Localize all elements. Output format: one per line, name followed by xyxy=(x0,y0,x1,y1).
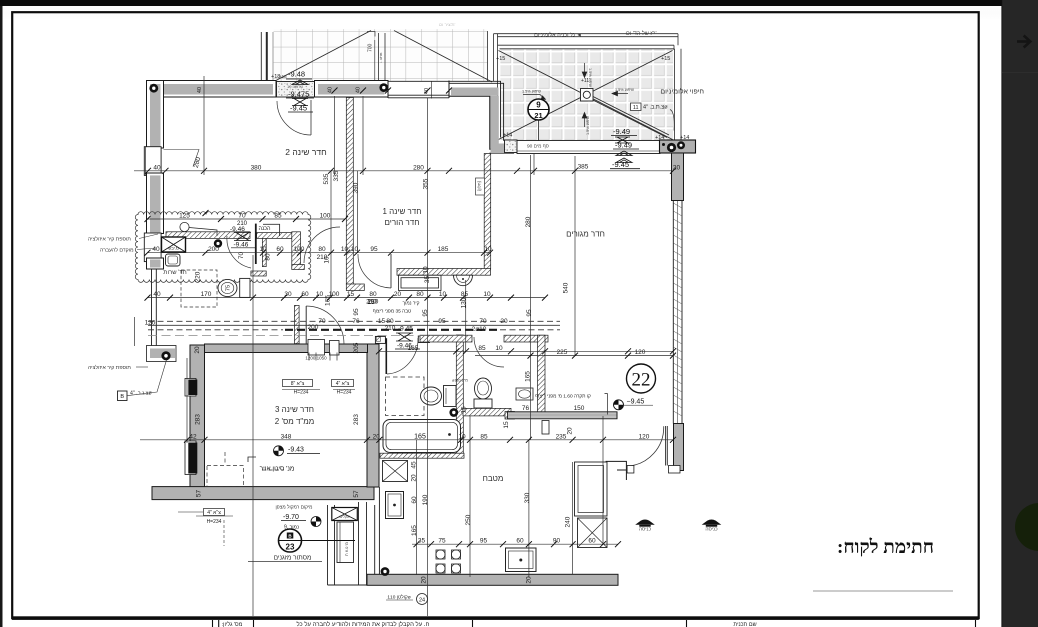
svg-text:40: 40 xyxy=(152,246,160,253)
svg-text:20: 20 xyxy=(394,291,402,298)
west window (thin double line) xyxy=(152,269,157,346)
svg-text:-9.49: -9.49 xyxy=(615,141,632,150)
svg-text:שיפוע 1.5%: שיפוע 1.5% xyxy=(588,68,592,87)
wall segment B xyxy=(315,81,389,98)
svg-text:200: 200 xyxy=(308,324,319,331)
svg-text:10: 10 xyxy=(259,246,267,253)
kitchen low wall gray band xyxy=(508,412,618,419)
small sink below washer xyxy=(166,254,181,266)
svg-text:165: 165 xyxy=(524,371,531,382)
svg-text:70: 70 xyxy=(318,318,326,325)
svg-text:20: 20 xyxy=(410,474,417,482)
bathtub south hatch xyxy=(380,453,464,458)
svg-text:B: B xyxy=(120,394,124,400)
svg-text:שם תכנית: שם תכנית xyxy=(733,622,756,627)
WC south walls xyxy=(463,408,511,416)
row y544 kitchen xyxy=(412,543,618,545)
tzad box bottom left xyxy=(178,509,233,547)
svg-text:כניסה: כניסה xyxy=(639,527,652,533)
svg-text:80: 80 xyxy=(265,253,272,261)
svg-text:20: 20 xyxy=(526,576,533,584)
parapet band under balcony xyxy=(517,141,660,154)
svg-text:23: 23 xyxy=(286,543,295,552)
svg-text:-9.70: -9.70 xyxy=(283,514,299,521)
bathtub xyxy=(383,420,461,453)
half-round basin xyxy=(454,275,473,286)
bath door jambs xyxy=(375,336,385,343)
bedroom2/bedroom1 partition xyxy=(346,98,353,285)
svg-text:10: 10 xyxy=(458,433,466,440)
svg-text:H=234: H=234 xyxy=(207,519,222,525)
row y250 corridor north xyxy=(147,252,490,254)
svg-text:ממ"ד מס' 2: ממ"ד מס' 2 xyxy=(275,417,314,426)
svg-text:20: 20 xyxy=(194,346,201,354)
shelter top wall xyxy=(205,344,368,353)
top gray band xyxy=(0,0,1038,6)
svg-text:22: 22 xyxy=(632,370,651,391)
svg-text:2ø10: 2ø10 xyxy=(472,326,487,333)
svg-text:אקלים: אקלים xyxy=(339,515,350,519)
svg-text:330: 330 xyxy=(524,492,531,503)
east wall: entrance pier xyxy=(674,424,684,471)
svg-text:ח. על הקבלן לבדוק את המידות ול: ח. על הקבלן לבדוק את המידות ולהודיע לחבר… xyxy=(297,620,430,627)
svg-text:40: 40 xyxy=(153,164,161,171)
svg-text:60: 60 xyxy=(301,291,309,298)
svg-text:קולטן 110ø: קולטן 110ø xyxy=(387,594,410,601)
left side labels xyxy=(88,236,134,372)
svg-text:-9.46: -9.46 xyxy=(397,343,412,350)
svg-text:90: 90 xyxy=(553,538,561,545)
svg-text:-9.43: -9.43 xyxy=(288,447,304,454)
svg-text:76: 76 xyxy=(352,318,360,325)
svg-text:283: 283 xyxy=(353,414,360,425)
svg-text:ø110 מ"ק: ø110 מ"ק xyxy=(452,379,468,383)
top fade overlay xyxy=(3,6,1006,32)
balcony door arc bedroom2 xyxy=(310,100,312,135)
svg-text:10: 10 xyxy=(351,246,359,253)
svg-text:H=234: H=234 xyxy=(337,390,352,396)
NW corner wall bedroom2 xyxy=(147,81,277,149)
svg-text:35: 35 xyxy=(418,538,426,545)
svg-text:חדר שינה 3: חדר שינה 3 xyxy=(275,405,314,414)
svg-text:125: 125 xyxy=(179,213,190,220)
svg-text:76: 76 xyxy=(522,405,530,412)
right service door arc xyxy=(304,227,340,263)
svg-text:-9.46: -9.46 xyxy=(230,226,245,233)
+15 corner labels xyxy=(271,56,689,141)
svg-text:57: 57 xyxy=(353,490,360,498)
-9.43 benchmark xyxy=(274,446,321,456)
tick marks (45deg slashes) xyxy=(145,88,677,548)
svg-text:20: 20 xyxy=(673,165,681,172)
svg-text:21: 21 xyxy=(534,111,542,120)
X-box below counter xyxy=(578,518,608,548)
bedroom1 south wall xyxy=(397,269,491,276)
rotated dimension texts xyxy=(164,87,574,584)
circle 9/21 xyxy=(528,99,549,148)
svg-text:כניסה: כניסה xyxy=(705,527,718,533)
B detail box xyxy=(118,391,128,401)
WC toilet xyxy=(475,378,492,399)
svg-text:80: 80 xyxy=(318,246,326,253)
WC east wall xyxy=(538,335,546,414)
svg-text:380: 380 xyxy=(251,164,262,171)
svg-text:40: 40 xyxy=(197,87,203,93)
circle 22 xyxy=(627,364,656,393)
svg-text:(חלון): (חלון) xyxy=(477,180,482,191)
north window (opening) xyxy=(388,81,449,99)
bottom table heavy line xyxy=(12,616,979,620)
green circle xyxy=(1015,503,1038,551)
shelter west wall xyxy=(190,345,205,497)
row y356 living xyxy=(475,355,673,357)
svg-text:70: 70 xyxy=(479,318,487,325)
svg-text:שיפוע 1.5%: שיפוע 1.5% xyxy=(586,116,590,135)
svg-text:+15: +15 xyxy=(661,56,670,62)
svg-text:85: 85 xyxy=(480,433,488,440)
svg-text:240: 240 xyxy=(565,516,572,527)
left balcony tile field xyxy=(274,29,488,82)
svg-text:225: 225 xyxy=(557,349,568,356)
svg-text:100: 100 xyxy=(320,213,331,220)
svg-text:מ.יבש: מ.יבש xyxy=(168,246,179,251)
slope arrows xyxy=(523,63,628,127)
drain square at X centre xyxy=(581,89,594,102)
svg-text:15: 15 xyxy=(460,406,467,414)
left balcony boundary joint lines xyxy=(261,32,273,81)
svg-text:מנ' סינון אויר: מנ' סינון אויר xyxy=(260,466,295,473)
svg-text:שיפוע 1.5%: שיפוע 1.5% xyxy=(522,90,541,94)
svg-text:355: 355 xyxy=(423,178,430,189)
WC north wall with door gap xyxy=(420,335,472,342)
svg-text:חד' שרות: חד' שרות xyxy=(163,270,186,276)
row y440 long xyxy=(140,439,673,441)
plumbing shaft block xyxy=(660,140,696,153)
svg-text:205: 205 xyxy=(353,342,360,353)
svg-text:235: 235 xyxy=(556,433,567,440)
svg-text:מיקום רמקול מצפן: מיקום רמקול מצפן xyxy=(276,504,313,511)
svg-text:מ' וכניה אלומיניום ◄: מ' וכניה אלומיניום ◄ xyxy=(534,32,582,39)
svg-text:חתימת לקוח:: חתימת לקוח: xyxy=(837,537,934,558)
svg-text:צ.נ.ב. "4ø: צ.נ.ב. "4ø xyxy=(130,391,152,397)
svg-text:שיפוע 1.5%: שיפוע 1.5% xyxy=(615,88,634,92)
shelter windows (black) xyxy=(185,379,196,397)
kitchen floor drain xyxy=(381,567,390,576)
svg-text:−9.45: −9.45 xyxy=(627,399,645,406)
svg-text:10: 10 xyxy=(495,345,503,352)
svg-text:-9.475: -9.475 xyxy=(288,90,309,99)
right balcony tile field xyxy=(499,50,673,141)
svg-text:348: 348 xyxy=(281,433,292,440)
svg-text:85: 85 xyxy=(274,213,282,220)
svg-text:40: 40 xyxy=(356,87,362,93)
bathroom toilet xyxy=(421,387,442,405)
svg-text:מס' גליון:: מס' גליון: xyxy=(222,621,243,627)
svg-text:10: 10 xyxy=(423,266,430,274)
svg-text:צ"א "4: צ"א "4 xyxy=(207,510,221,516)
svg-text:הכנה: הכנה xyxy=(259,226,272,232)
window marker dots xyxy=(149,84,158,93)
svg-text:45: 45 xyxy=(410,461,417,469)
left balcony X diagonals xyxy=(274,31,492,83)
svg-text:165: 165 xyxy=(411,525,418,536)
svg-text:40: 40 xyxy=(328,87,334,93)
service area hatched wall xyxy=(166,232,250,239)
west kitchen sink xyxy=(386,492,404,519)
svg-text:חדר שינה 2: חדר שינה 2 xyxy=(285,147,326,157)
hob xyxy=(436,550,461,573)
svg-text:95: 95 xyxy=(370,246,378,253)
svg-text:קו תקרה 1.60 מ' מפני ריצוף: קו תקרה 1.60 מ' מפני ריצוף xyxy=(535,394,591,400)
dashed rect below service xyxy=(181,270,217,307)
svg-text:-9.49: -9.49 xyxy=(613,127,630,136)
svg-text:15: 15 xyxy=(378,318,386,325)
svg-text:120: 120 xyxy=(145,320,156,327)
WC door xyxy=(474,337,504,367)
shower dashed xyxy=(386,377,425,416)
bathroom door leaf+arc xyxy=(385,338,387,374)
svg-text:קיר נמוך: קיר נמוך xyxy=(403,302,420,307)
-9.45 near circle22 xyxy=(614,400,624,410)
svg-text:10: 10 xyxy=(341,246,349,253)
svg-text:מסתור מזגנים: מסתור מזגנים xyxy=(274,555,312,562)
bedroom1 east wall xyxy=(484,154,491,270)
svg-text:+15: +15 xyxy=(496,56,505,62)
svg-text:95: 95 xyxy=(422,309,429,317)
svg-text:540: 540 xyxy=(563,282,570,293)
detail box 11 xyxy=(631,103,642,111)
svg-text:מ' 6.0 ח: מ' 6.0 ח xyxy=(344,542,349,556)
svg-text:תוספת קיר איזולציה: תוספת קיר איזולציה xyxy=(88,364,131,371)
svg-text:100: 100 xyxy=(294,246,305,253)
mid-balcony joint with channel xyxy=(375,33,385,81)
svg-text:95: 95 xyxy=(353,308,360,316)
svg-text:-9.48: -9.48 xyxy=(288,70,305,79)
svg-text:סף מים 90: סף מים 90 xyxy=(527,144,549,150)
svg-text:חדר מגורים: חדר מגורים xyxy=(566,230,605,239)
svg-text:170: 170 xyxy=(201,291,212,298)
kitchen west wall lines xyxy=(375,487,380,574)
svg-text:צ"א "4: צ"א "4 xyxy=(336,381,350,387)
svg-text:42: 42 xyxy=(189,433,197,440)
svg-text:חדר הורים: חדר הורים xyxy=(385,218,420,227)
svg-text:15: 15 xyxy=(347,291,355,298)
shelter south wall xyxy=(152,487,374,500)
svg-text:95: 95 xyxy=(480,538,488,545)
svg-text:700: 700 xyxy=(368,43,374,52)
svg-text:צ.ת.ב. "4ø: צ.ת.ב. "4ø xyxy=(643,105,668,111)
svg-text:60: 60 xyxy=(516,538,524,545)
entrance awnings xyxy=(635,519,721,532)
circle 23 xyxy=(279,529,302,552)
arrow icon xyxy=(1017,36,1030,48)
svg-text:210: 210 xyxy=(385,325,396,332)
svg-text:תוספת קיר איזולציה: תוספת קיר איזולציה xyxy=(88,236,131,243)
svg-text:60: 60 xyxy=(588,538,596,545)
svg-text:20: 20 xyxy=(421,576,428,584)
svg-text:280: 280 xyxy=(525,216,532,227)
svg-text:80: 80 xyxy=(369,291,377,298)
svg-text:מטבח: מטבח xyxy=(483,474,504,483)
svg-text:120: 120 xyxy=(635,349,646,356)
service door xyxy=(255,224,257,264)
kitchen duct X-box xyxy=(383,461,408,482)
svg-text:210: 210 xyxy=(366,298,377,305)
svg-text:20: 20 xyxy=(373,433,381,440)
svg-text:200: 200 xyxy=(208,246,219,253)
svg-text:H=234: H=234 xyxy=(294,390,309,396)
svg-text:+14: +14 xyxy=(503,133,512,139)
terrazzo threshold block xyxy=(277,82,315,98)
counter rect xyxy=(575,462,608,516)
entrance porch step lines xyxy=(606,461,626,480)
guest toilet xyxy=(218,279,237,296)
svg-text:↓ מרזב: ↓ מרזב xyxy=(379,52,383,63)
tzad boxes top of shelter xyxy=(282,380,355,396)
svg-text:מוקדם להעברה: מוקדם להעברה xyxy=(100,247,134,254)
svg-text:+18: +18 xyxy=(279,74,287,79)
row y351 bath xyxy=(379,350,673,352)
svg-text:75: 75 xyxy=(226,285,232,291)
bathroom west=shelter east already; bathroom east wall xyxy=(456,335,463,456)
svg-text:185: 185 xyxy=(438,246,449,253)
svg-text:9: 9 xyxy=(536,101,541,110)
svg-text:40: 40 xyxy=(153,291,161,298)
main kitchen sink xyxy=(506,548,537,572)
svg-text:165: 165 xyxy=(324,295,331,306)
right balcony X diagonals xyxy=(499,51,673,140)
WC small sink xyxy=(516,388,533,400)
svg-text:10: 10 xyxy=(316,291,324,298)
svg-text:190: 190 xyxy=(422,494,429,505)
east wall: window strip xyxy=(673,201,682,424)
svg-text:283: 283 xyxy=(194,414,201,425)
level marks right balcony xyxy=(612,127,632,169)
svg-text:85: 85 xyxy=(478,345,486,352)
svg-text:120: 120 xyxy=(639,433,650,440)
svg-text:15: 15 xyxy=(503,421,510,429)
NE corner wall xyxy=(449,81,516,153)
verticals xyxy=(203,76,205,175)
svg-text:80: 80 xyxy=(386,318,394,325)
svg-text:130: 130 xyxy=(461,297,468,308)
svg-text:75: 75 xyxy=(438,538,446,545)
svg-text:צ"א "8: צ"א "8 xyxy=(291,381,305,387)
air filter dashed xyxy=(207,466,244,487)
svg-text:220: 220 xyxy=(195,271,202,282)
svg-text:10: 10 xyxy=(324,256,331,264)
svg-text:335: 335 xyxy=(333,170,340,181)
svg-text:57: 57 xyxy=(196,490,203,498)
shelter door arc xyxy=(305,306,307,344)
svg-text:20: 20 xyxy=(500,318,508,325)
speckled column at balcony SE xyxy=(505,140,518,153)
svg-text:11: 11 xyxy=(633,105,639,111)
east wall: gray top xyxy=(672,153,684,201)
circle fixture + line xyxy=(180,222,189,231)
svg-text:95: 95 xyxy=(526,309,533,317)
svg-text:70: 70 xyxy=(238,252,245,260)
svg-text:-9.46: -9.46 xyxy=(234,241,249,248)
svg-text:385: 385 xyxy=(578,163,589,170)
svg-text:חיפוי אלומיניום: חיפוי אלומיניום xyxy=(660,88,704,96)
top neighbour texts xyxy=(439,22,657,39)
right sidebar xyxy=(1002,0,1038,627)
svg-text:חדר שינה 1: חדר שינה 1 xyxy=(383,207,422,216)
svg-text:10: 10 xyxy=(484,246,492,253)
entrance door leaf+arc xyxy=(665,426,667,466)
shelter east wall xyxy=(367,344,379,487)
svg-text:95: 95 xyxy=(438,318,446,325)
svg-text:24: 24 xyxy=(419,598,425,604)
svg-text:70: 70 xyxy=(238,213,246,220)
bathroom drain xyxy=(449,408,458,417)
svg-text:-9.45: -9.45 xyxy=(398,326,413,333)
svg-text:60: 60 xyxy=(411,496,418,504)
svg-text:10: 10 xyxy=(439,291,447,298)
svg-text:85: 85 xyxy=(461,291,469,298)
level marks left balcony door xyxy=(288,70,309,113)
row y297 xyxy=(147,297,545,299)
row y219 cloud xyxy=(147,218,345,220)
SW corner block with insulation xyxy=(147,346,177,362)
svg-text:250: 250 xyxy=(465,514,472,525)
bottom table row xyxy=(213,620,976,627)
right balcony neighbour top band lines xyxy=(488,31,682,140)
svg-text:20: 20 xyxy=(567,427,574,435)
svg-text:60: 60 xyxy=(276,246,284,253)
shelter door opening jambs xyxy=(308,340,325,356)
svg-text:150: 150 xyxy=(574,405,585,412)
svg-text:40: 40 xyxy=(424,88,430,94)
low shelf under bedroom1 xyxy=(399,275,442,290)
svg-text:280: 280 xyxy=(413,164,424,171)
floor drain xyxy=(214,239,222,247)
svg-text:10: 10 xyxy=(483,291,491,298)
svg-text:30: 30 xyxy=(284,291,292,298)
svg-text:390: 390 xyxy=(353,182,360,193)
svg-text:טבה 35 מפני ריצוף: טבה 35 מפני ריצוף xyxy=(373,309,411,315)
svg-text:80: 80 xyxy=(416,291,424,298)
svg-text:535: 535 xyxy=(323,173,330,184)
svg-text:35: 35 xyxy=(424,276,431,284)
washing machine box xyxy=(162,237,186,252)
row y171 under top wall xyxy=(134,170,673,172)
